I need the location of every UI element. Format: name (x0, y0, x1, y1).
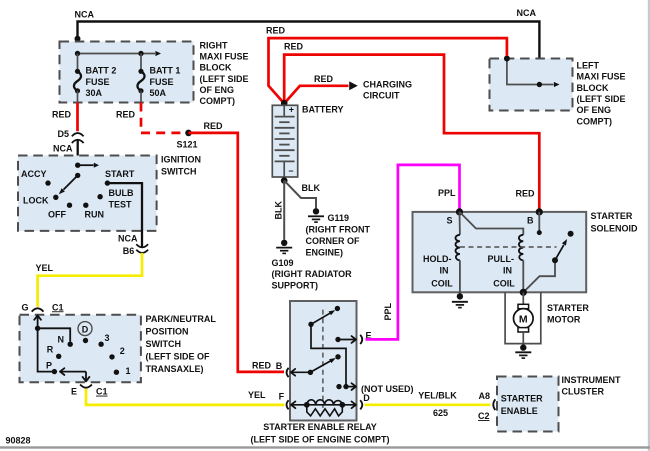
node OFF contact (67, 203, 72, 208)
svg-text:OF ENG: OF ENG (200, 85, 235, 95)
relay switch 1 upper (311, 313, 330, 324)
node 3 contact (98, 342, 103, 347)
svg-text:S121: S121 (177, 140, 198, 150)
wire ignition wiper arm to LOCK (64, 175, 78, 189)
svg-text:IN: IN (440, 265, 449, 275)
wire RED battery to left maxi fuse block (269, 38, 507, 103)
battery minus terminal stub (283, 161, 285, 177)
svg-text:(RIGHT FRONT: (RIGHT FRONT (306, 224, 371, 234)
fuse BATT 2 FUSE 30A (77, 54, 79, 72)
wire RED S121 to relay B (189, 133, 285, 372)
ground starter motor (520, 344, 526, 350)
wire E exit with down arrow (85, 372, 87, 382)
motor top brush (518, 304, 529, 308)
svg-text:625: 625 (433, 408, 448, 418)
right maxi fuse block box (60, 42, 194, 103)
svg-text:LOCK: LOCK (23, 195, 49, 205)
node battery positive junction (281, 100, 288, 107)
svg-text:YEL: YEL (36, 263, 54, 273)
starter solenoid box (413, 212, 587, 292)
solenoid mechanical dashed line (460, 246, 557, 248)
svg-text:BATT 2: BATT 2 (86, 66, 117, 76)
wire branch to N contact (38, 328, 71, 341)
solenoid switch arm (555, 245, 564, 260)
svg-text:1: 1 (126, 366, 131, 376)
svg-text:HOLD-: HOLD- (423, 254, 452, 264)
svg-text:OF ENG: OF ENG (577, 105, 612, 115)
svg-text:3: 3 (105, 333, 110, 343)
node BULB TEST contact (97, 194, 102, 199)
svg-text:PPL: PPL (383, 302, 393, 320)
svg-text:CHARGING: CHARGING (363, 79, 412, 89)
svg-text:STARTER: STARTER (591, 211, 633, 221)
ignition switch box (18, 156, 157, 231)
svg-text:OFF: OFF (48, 210, 66, 220)
svg-text:START: START (105, 169, 135, 179)
svg-text:COIL: COIL (493, 279, 515, 289)
svg-text:30A: 30A (86, 88, 103, 98)
svg-text:PPL: PPL (438, 188, 456, 198)
wire NCA top bus (78, 22, 540, 85)
wire pull-in coil to motor node (522, 260, 524, 292)
svg-text:SWITCH: SWITCH (146, 339, 182, 349)
svg-text:C2: C2 (478, 411, 490, 421)
wire relay not-used arrow (346, 386, 356, 388)
svg-text:ENABLE: ENABLE (501, 406, 538, 416)
svg-text:R: R (47, 345, 54, 355)
svg-text:D: D (363, 393, 370, 403)
svg-text:MOTOR: MOTOR (547, 314, 581, 324)
connector G C1 (32, 308, 44, 311)
relay armature dashed link line (322, 310, 324, 408)
svg-text:P: P (46, 361, 52, 371)
svg-text:SUPPORT): SUPPORT) (272, 281, 319, 291)
node R contact (56, 354, 61, 359)
wire motor node to solenoid contact switch (523, 260, 555, 292)
wire PPL relay E to solenoid S (366, 165, 460, 340)
relay coil between F and D (291, 404, 356, 406)
starter enable relay box (290, 301, 357, 421)
node relay contact near D (336, 384, 341, 389)
node ignition feed junction (78, 164, 94, 166)
connector D5 (72, 133, 84, 136)
ground G109 (281, 240, 287, 246)
relay coil windings (307, 400, 343, 405)
svg-text:YEL: YEL (248, 390, 266, 400)
svg-text:FUSE: FUSE (150, 77, 174, 87)
instrument cluster box (497, 377, 559, 432)
svg-text:COMPT): COMPT) (577, 116, 613, 126)
svg-text:G: G (22, 302, 29, 312)
svg-text:NCA: NCA (53, 144, 73, 154)
wire S to pull-in coil (460, 212, 524, 235)
svg-text:RED: RED (252, 361, 272, 371)
wire BLK battery to G119 (284, 181, 316, 209)
svg-text:ACCY: ACCY (21, 169, 47, 179)
connector E C1 (80, 385, 92, 388)
svg-text:COIL: COIL (431, 279, 453, 289)
relay switch 2 lower (310, 361, 330, 372)
node relay switch 1 fixed contact (335, 306, 340, 311)
wire YEL B6 to park-neutral G (38, 253, 142, 307)
node 1 contact (114, 370, 119, 375)
svg-text:M: M (519, 313, 528, 325)
svg-text:RIGHT: RIGHT (200, 40, 229, 50)
node 2 contact (109, 354, 114, 359)
svg-text:NCA: NCA (517, 8, 537, 18)
svg-text:LEFT: LEFT (577, 61, 600, 71)
svg-text:CORNER OF: CORNER OF (306, 236, 361, 246)
node G branch junction (35, 326, 40, 331)
wire RED batt2 fuse to D5 (76, 103, 79, 132)
svg-text:BATTERY: BATTERY (302, 105, 344, 115)
svg-text:C1: C1 (96, 387, 108, 397)
svg-text:RED: RED (314, 74, 334, 84)
svg-text:MAXI FUSE: MAXI FUSE (200, 52, 249, 62)
svg-text:B: B (527, 215, 534, 225)
svg-text:BLK: BLK (274, 201, 284, 220)
node N contact (68, 342, 73, 347)
svg-text:BLOCK: BLOCK (200, 63, 232, 73)
wire E wiper to P with left arrow (60, 371, 86, 373)
node battery negative junction (281, 177, 288, 184)
svg-text:S: S (447, 215, 453, 225)
svg-text:ENGINE): ENGINE) (306, 247, 344, 257)
coil PULL-IN (519, 235, 523, 260)
park neutral position switch box (20, 315, 141, 382)
node solenoid terminal S (456, 208, 463, 215)
wire START to B6 (107, 183, 142, 247)
node relay switch 2 fixed contact (335, 354, 340, 359)
connector bracket D (360, 400, 362, 409)
connector bracket E (360, 335, 362, 344)
wire RED battery to charging circuit (284, 86, 348, 104)
svg-text:COMPT): COMPT) (200, 96, 236, 106)
svg-text:90828: 90828 (6, 436, 31, 446)
wire RED dashed batt1 fuse to S121 (141, 103, 185, 133)
wire relay switch1 pivot to D contact (311, 324, 346, 386)
svg-text:G119: G119 (328, 213, 350, 223)
ground G119 (313, 208, 319, 214)
ground solenoid hold-in (457, 293, 463, 299)
svg-text:STARTER: STARTER (547, 303, 589, 313)
connector bracket B (287, 368, 289, 377)
node P contact (52, 369, 57, 374)
svg-text:YEL/BLK: YEL/BLK (418, 391, 457, 401)
node RUN contact (83, 203, 88, 208)
fuse BATT 1 FUSE 50A (140, 54, 142, 72)
svg-text:BLK: BLK (302, 183, 321, 193)
svg-text:RED: RED (284, 42, 304, 52)
svg-text:–: – (289, 165, 294, 175)
svg-text:(LEFT SIDE OF: (LEFT SIDE OF (146, 351, 211, 361)
svg-text:(LEFT SIDE: (LEFT SIDE (577, 94, 626, 104)
wire hold-in coil to ground (459, 260, 461, 293)
node START contact (105, 180, 110, 185)
svg-text:PARK/NEUTRAL: PARK/NEUTRAL (146, 314, 217, 324)
wire fuse block internal bus (78, 53, 156, 55)
svg-text:D5: D5 (58, 129, 70, 139)
svg-text:PULL-: PULL- (488, 254, 515, 264)
motor bottom brush (518, 328, 529, 332)
svg-text:FUSE: FUSE (86, 77, 110, 87)
battery cell plates (275, 116, 295, 118)
svg-text:F: F (279, 392, 285, 402)
connector bracket A8 C2 (493, 399, 495, 410)
svg-text:N: N (58, 335, 65, 345)
svg-text:RED: RED (204, 121, 224, 131)
wire YEL/BLK circuit 625 (365, 403, 491, 406)
node junction at right maxi fuse block top (75, 36, 81, 42)
svg-text:BULB: BULB (109, 188, 134, 198)
svg-text:NCA: NCA (75, 9, 95, 19)
svg-text:50A: 50A (150, 88, 167, 98)
svg-text:TRANSAXLE): TRANSAXLE) (146, 364, 204, 374)
svg-text:BLOCK: BLOCK (577, 83, 609, 93)
svg-text:2: 2 (120, 346, 125, 356)
relay terminal F arrow (291, 401, 295, 404)
svg-text:IGNITION: IGNITION (161, 154, 201, 164)
left maxi fuse block box (490, 59, 573, 111)
svg-text:RUN: RUN (85, 210, 105, 220)
svg-text:STARTER ENABLE RELAY: STARTER ENABLE RELAY (263, 422, 377, 432)
relay resistor (307, 405, 343, 416)
node ignition wiper pivot (75, 173, 80, 178)
wire B terminal stub (538, 212, 540, 231)
svg-text:A8: A8 (479, 391, 491, 401)
wire to motor brush (522, 292, 524, 304)
svg-text:C1: C1 (52, 302, 64, 312)
wire G entry with up arrow (37, 315, 39, 328)
node bus junction BATT1 (138, 51, 143, 56)
battery box (272, 105, 297, 177)
node solenoid motor junction (520, 289, 527, 296)
node NCA junction (537, 82, 542, 87)
svg-text:D: D (82, 324, 89, 334)
connector bracket F (287, 400, 289, 409)
splice S121 (185, 130, 192, 137)
coil HOLD-IN (455, 235, 459, 260)
svg-text:BATT 1: BATT 1 (150, 66, 181, 76)
wire left fuse block internal (507, 59, 554, 85)
svg-text:STARTER: STARTER (501, 393, 543, 403)
svg-text:INSTRUMENT: INSTRUMENT (562, 375, 621, 385)
motor M armature (514, 309, 534, 329)
svg-text:(LEFT SIDE: (LEFT SIDE (200, 74, 249, 84)
svg-text:RED: RED (116, 109, 136, 119)
svg-text:POSITION: POSITION (146, 327, 189, 337)
svg-text:(LEFT SIDE OF ENGINE COMPT): (LEFT SIDE OF ENGINE COMPT) (251, 435, 390, 445)
svg-text:RED: RED (52, 109, 72, 119)
wire RED battery to starter solenoid B (284, 55, 539, 209)
svg-text:RED: RED (516, 189, 536, 199)
circle D position indicator (78, 322, 92, 336)
svg-text:NCA: NCA (118, 233, 138, 243)
wire brush to frame bottom (522, 332, 524, 344)
node solenoid terminal B (536, 208, 543, 215)
relay terminal D arrow (352, 405, 356, 408)
svg-text:CIRCUIT: CIRCUIT (363, 91, 400, 101)
wire YEL E to relay F (86, 389, 284, 405)
svg-text:SWITCH: SWITCH (161, 167, 197, 177)
svg-text:MAXI FUSE: MAXI FUSE (577, 72, 626, 82)
node solenoid switch fixed contact (568, 231, 574, 237)
svg-text:(RIGHT RADIATOR: (RIGHT RADIATOR (272, 269, 353, 279)
wire BLK battery to G109 (283, 181, 285, 240)
wire NCA D5 to ignition switch (77, 140, 79, 175)
connector B6 (136, 244, 148, 247)
svg-text:SOLENOID: SOLENOID (591, 224, 639, 234)
svg-text:E: E (71, 387, 77, 397)
relay terminal E arrow (335, 337, 340, 342)
node LOCK contact (53, 195, 58, 200)
battery plus terminal stub (283, 105, 285, 116)
svg-text:IN: IN (503, 265, 512, 275)
starter motor frame (505, 292, 541, 343)
node D contact (83, 338, 88, 343)
svg-text:B: B (276, 361, 283, 371)
node ACCY contact (45, 180, 50, 185)
wire S to hold-in coil (459, 212, 461, 235)
svg-text:CLUSTER: CLUSTER (562, 387, 605, 397)
svg-text:TEST: TEST (109, 199, 133, 209)
node red feed terminal (504, 56, 510, 62)
svg-text:B6: B6 (123, 246, 135, 256)
relay terminal B arrow (291, 371, 311, 373)
svg-text:RED: RED (266, 25, 286, 35)
node B stub contact (537, 230, 542, 235)
wire G down to P row (38, 328, 52, 371)
node bus junction BATT2 (75, 51, 80, 56)
svg-text:+: + (289, 104, 294, 114)
svg-text:G109: G109 (272, 258, 294, 268)
